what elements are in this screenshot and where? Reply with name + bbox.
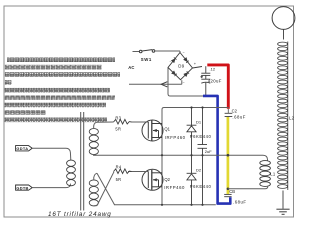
- svg-text:420uF: 420uF: [208, 78, 222, 83]
- svg-text:.12: .12: [210, 67, 216, 72]
- svg-text:GDTA: GDTA: [16, 146, 28, 151]
- svg-text:L2: L2: [289, 116, 295, 121]
- svg-text:IRFP460: IRFP460: [165, 135, 186, 140]
- svg-text:P6KE440: P6KE440: [190, 134, 212, 139]
- svg-text:GDTB: GDTB: [16, 186, 28, 191]
- svg-text:.68uF: .68uF: [232, 115, 246, 120]
- svg-text:5R: 5R: [116, 177, 122, 182]
- svg-text:5R: 5R: [115, 127, 121, 132]
- svg-text:L1: L1: [270, 172, 276, 177]
- svg-text:IRFP460: IRFP460: [164, 185, 185, 190]
- svg-text:2uF: 2uF: [205, 149, 212, 154]
- svg-text:CB: CB: [229, 189, 235, 194]
- svg-text:D1: D1: [196, 119, 202, 124]
- svg-text:R4: R4: [116, 165, 122, 170]
- svg-text:16T trifilar 24awg: 16T trifilar 24awg: [48, 211, 112, 218]
- svg-text:~: ~: [183, 51, 185, 55]
- svg-text:Q2: Q2: [164, 177, 170, 182]
- svg-text:D9: D9: [178, 64, 184, 69]
- svg-text:Q1: Q1: [164, 127, 170, 132]
- svg-text:AC: AC: [128, 65, 134, 70]
- svg-text:R3: R3: [115, 115, 121, 120]
- svg-text:SW1: SW1: [141, 57, 152, 62]
- svg-text:+: +: [194, 61, 197, 66]
- svg-text:C2: C2: [232, 108, 238, 113]
- svg-text:-: -: [170, 59, 172, 64]
- svg-text:D2: D2: [196, 168, 202, 173]
- svg-text:P6KE440: P6KE440: [190, 184, 212, 189]
- svg-text:~: ~: [183, 81, 185, 85]
- svg-text:.68uF: .68uF: [233, 200, 247, 205]
